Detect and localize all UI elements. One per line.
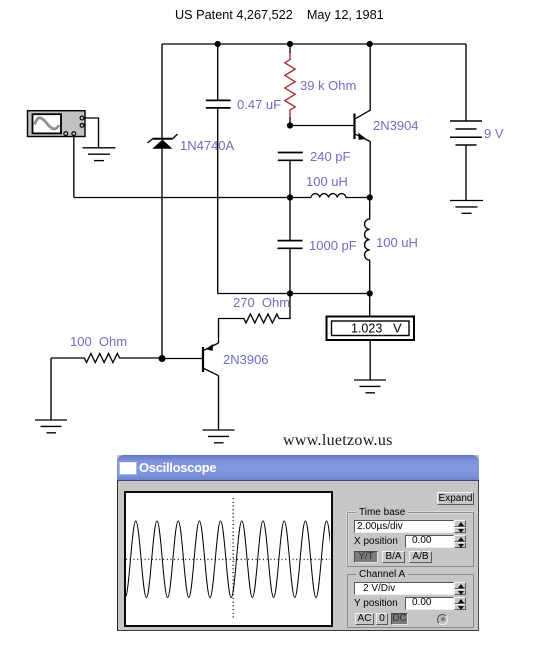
channel A sine trace xyxy=(125,521,337,598)
window body edge xyxy=(117,481,479,631)
svg-text:9 V: 9 V xyxy=(484,126,504,141)
svg-text:0.47 uF: 0.47 uF xyxy=(237,97,281,112)
V/div field xyxy=(354,582,454,595)
www.luetzow.us watermark xyxy=(283,432,393,450)
wire probe horizontal to L1 xyxy=(74,197,311,199)
svg-text:240 pF: 240 pF xyxy=(310,149,351,164)
node top-rail/R1 xyxy=(287,41,293,47)
AC 0 DC buttons xyxy=(355,613,374,625)
ground (R3) xyxy=(35,420,67,433)
resistor R2 270 Ohm xyxy=(219,314,280,323)
ground (scope) xyxy=(83,148,116,161)
oscilloscope XSC1 icon xyxy=(28,111,86,137)
oscilloscope instrument window xyxy=(117,455,479,631)
svg-text:1N4740A: 1N4740A xyxy=(180,138,235,153)
svg-text:1000 pF: 1000 pF xyxy=(309,238,357,253)
title text xyxy=(139,460,216,475)
title bar xyxy=(117,455,479,481)
input radio xyxy=(437,614,448,625)
wire Q2 base xyxy=(162,358,203,360)
battery V1 9V xyxy=(450,44,482,201)
time/div field xyxy=(354,520,454,533)
node emitter/L1/L2 xyxy=(367,194,373,200)
node top-rail/Q1 collector xyxy=(367,41,373,47)
crosshair vertical dotted xyxy=(232,498,234,620)
transistor Q1 2N3904 xyxy=(355,110,371,141)
Y/T B/A A/B buttons xyxy=(354,551,378,563)
wire bottom rail xyxy=(218,293,370,295)
Y position row xyxy=(354,598,398,609)
wire left branch down to zener xyxy=(161,44,163,138)
capacitor C3 1000pF xyxy=(278,198,303,294)
ground (battery) xyxy=(450,201,483,214)
node zener/R3/base xyxy=(159,355,166,362)
inductor L2 100uH vertical xyxy=(365,198,370,294)
wire top rail xyxy=(162,43,466,45)
resistor R1 39k red xyxy=(285,44,295,126)
wire R2 to Q2 emitter xyxy=(218,319,220,344)
svg-text:100 uH: 100 uH xyxy=(376,235,418,250)
title icon xyxy=(119,462,137,475)
scope display xyxy=(124,491,333,627)
ground (Q2) xyxy=(203,430,235,443)
node top-rail/C1 xyxy=(215,41,221,47)
wire node to voltmeter xyxy=(369,294,371,317)
X position row xyxy=(354,536,398,547)
zener diode D1 1N4740A xyxy=(148,134,178,149)
wire R3 to ground xyxy=(50,358,52,420)
capacitor C1 0.47uF xyxy=(206,44,231,294)
svg-text:39 k Ohm: 39 k Ohm xyxy=(300,78,356,93)
svg-text:1.023: 1.023 xyxy=(351,322,382,336)
wire scope probe down xyxy=(73,135,75,198)
wire Q2 collector to ground xyxy=(218,376,220,430)
svg-text:270 Ohm: 270 Ohm xyxy=(233,295,290,310)
node R1/Q1 base/C2 xyxy=(287,122,293,128)
wire base Q1 xyxy=(290,125,354,127)
wire Q1 collector up xyxy=(369,44,371,111)
svg-text:2N3906: 2N3906 xyxy=(223,352,269,367)
svg-text:100 uH: 100 uH xyxy=(306,174,348,189)
wire Q1 emitter down xyxy=(369,141,371,197)
node probe/C2/C3 junction xyxy=(287,194,293,200)
ground (meter) xyxy=(354,380,386,393)
Expand button xyxy=(437,492,474,505)
Time base group xyxy=(347,512,474,567)
svg-text:V: V xyxy=(393,321,402,336)
node bottom/C3/R2 xyxy=(287,290,293,296)
wire node to R2 xyxy=(279,294,290,319)
wire voltmeter to ground xyxy=(369,340,371,380)
capacitor C2 240pF xyxy=(278,153,303,198)
transistor Q2 2N3906 xyxy=(203,343,219,376)
svg-text:100 Ohm: 100 Ohm xyxy=(70,334,127,349)
node bottom/L2/meter xyxy=(367,290,373,296)
resistor R3 100 Ohm xyxy=(51,354,162,363)
inductor L1 100uH horizontal xyxy=(311,194,370,198)
title text xyxy=(175,8,384,22)
Channel A group xyxy=(347,574,474,628)
wire zener to node J5 xyxy=(161,149,163,359)
wire scope terminal to ground xyxy=(84,118,99,148)
voltmeter M1 xyxy=(327,317,415,341)
svg-text:2N3904: 2N3904 xyxy=(373,118,419,133)
crosshair horizontal dotted xyxy=(126,558,330,560)
